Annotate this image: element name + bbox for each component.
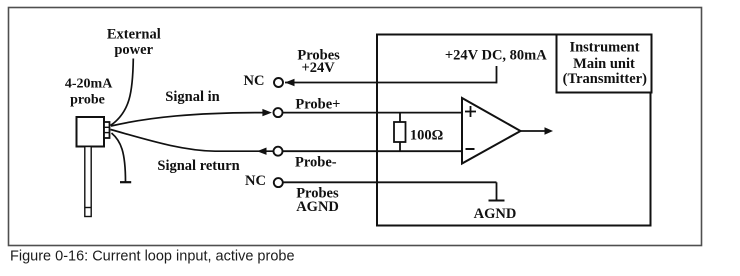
svg-text:Probe+: Probe+ — [295, 96, 340, 112]
node Probe- terminal — [274, 147, 283, 156]
probe body 4-20mA — [77, 117, 105, 147]
op-amp U2 — [462, 98, 521, 164]
svg-text:Main unit: Main unit — [573, 56, 635, 72]
svg-text:Signal in: Signal in — [165, 89, 219, 105]
svg-text:Probe-: Probe- — [295, 154, 337, 170]
svg-text:Figure 0-16: Current loop inpu: Figure 0-16: Current loop input, active … — [10, 248, 295, 264]
wire +24V supply — [285, 66, 497, 86]
svg-text:+24V: +24V — [302, 60, 336, 76]
svg-text:(Transmitter): (Transmitter) — [563, 71, 647, 87]
svg-text:Instrument: Instrument — [569, 40, 639, 56]
svg-text:AGND: AGND — [474, 206, 517, 222]
svg-text:External: External — [107, 27, 161, 43]
wire Probe+ to op-amp — [283, 112, 463, 114]
node Probe+ terminal — [274, 108, 283, 117]
label Signal return — [157, 158, 239, 174]
wire Signal in from probe — [111, 109, 272, 126]
wire Probe- to op-amp — [283, 150, 463, 152]
svg-text:probe: probe — [70, 92, 105, 107]
instrument main unit box U1 — [377, 35, 651, 226]
svg-text:AGND: AGND — [296, 199, 339, 215]
label 100 ohm — [410, 127, 443, 143]
wire op-amp output — [521, 127, 554, 134]
label 4-20mA probe — [65, 76, 113, 107]
label Signal in — [165, 89, 219, 105]
label +24V DC, 80mA — [445, 47, 547, 63]
svg-text:power: power — [114, 42, 153, 58]
label Probe+ — [295, 96, 340, 112]
probe shaft rod — [85, 147, 91, 217]
svg-text:+24V DC, 80mA: +24V DC, 80mA — [445, 47, 547, 63]
wire Probes AGND — [283, 182, 497, 200]
wire external power lead — [111, 59, 134, 126]
wire Signal return from probe — [111, 130, 274, 155]
svg-text:Signal return: Signal return — [157, 158, 239, 174]
label Probes AGND — [296, 186, 339, 215]
svg-text:NC: NC — [245, 173, 266, 189]
wire probe ground lead — [112, 133, 126, 182]
label NC 1 — [244, 73, 265, 89]
node NC terminal 2 — [274, 178, 283, 187]
ground AGND bar — [489, 200, 505, 202]
svg-text:NC: NC — [244, 73, 265, 89]
svg-text:4-20mA: 4-20mA — [65, 76, 113, 91]
ground probe bar — [120, 181, 131, 183]
caption Figure 0-16 — [10, 248, 295, 264]
label AGND instrument — [474, 206, 517, 222]
label Probes +24V — [297, 48, 340, 76]
resistor R1 100 ohm — [394, 113, 406, 152]
svg-text:100Ω: 100Ω — [410, 127, 443, 143]
label Probe- — [295, 154, 337, 170]
probe connector pins — [104, 122, 110, 138]
label External power — [107, 27, 161, 58]
label NC 2 — [245, 173, 266, 189]
node NC terminal 1 — [274, 78, 283, 87]
instrument label box — [557, 35, 652, 93]
